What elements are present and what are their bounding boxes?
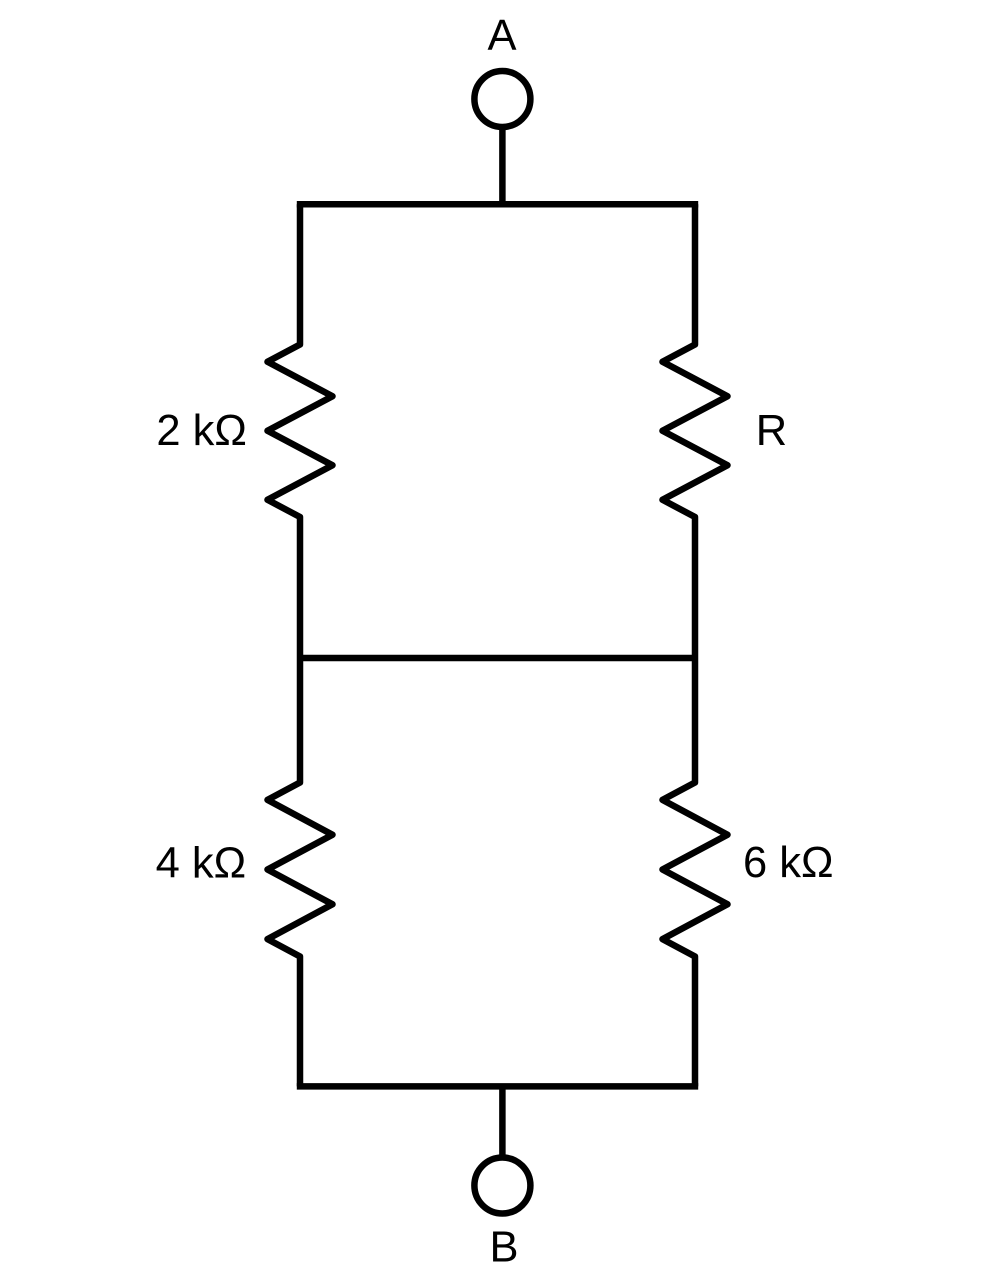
wire: top node A horizontal xyxy=(297,201,698,208)
wire: bottom node B horizontal xyxy=(297,1083,698,1090)
resistor 6 kOhm (right lower branch with leads) xyxy=(663,658,728,1086)
resistor 4 kOhm (left lower branch with leads) xyxy=(268,658,333,1086)
resistor R (right upper branch with leads) xyxy=(663,204,728,658)
svg-text:2 kΩ: 2 kΩ xyxy=(156,407,247,455)
wire: terminal B stem xyxy=(499,1086,506,1157)
svg-text:6 kΩ: 6 kΩ xyxy=(743,839,834,887)
resistor 2 kOhm (left upper branch with leads) xyxy=(268,204,333,658)
svg-text:A: A xyxy=(487,12,516,60)
svg-text:R: R xyxy=(756,407,787,455)
wire: terminal A stem xyxy=(499,128,506,205)
svg-text:4 kΩ: 4 kΩ xyxy=(156,840,247,888)
terminal B circle xyxy=(474,1158,530,1214)
wire: middle node horizontal xyxy=(300,655,695,662)
terminal A circle xyxy=(474,71,530,127)
svg-text:B: B xyxy=(489,1224,518,1272)
